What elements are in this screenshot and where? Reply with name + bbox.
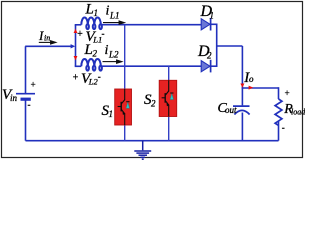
svg-text:-: - [28, 100, 31, 110]
svg-text:2: 2 [207, 51, 212, 61]
svg-text:out: out [225, 105, 237, 115]
svg-text:+: + [30, 80, 36, 90]
svg-text:-: - [98, 72, 101, 82]
svg-text:1: 1 [94, 8, 99, 18]
svg-text:in: in [44, 34, 50, 43]
svg-text:load: load [291, 107, 305, 116]
svg-text:L2: L2 [108, 50, 119, 60]
svg-text:in: in [10, 93, 18, 103]
svg-text:L: L [85, 2, 94, 18]
svg-text:1: 1 [210, 11, 215, 21]
svg-text:2: 2 [93, 48, 98, 58]
svg-text:1: 1 [109, 109, 114, 119]
svg-text:i: i [105, 43, 109, 58]
svg-text:2: 2 [151, 98, 156, 108]
svg-text:+: + [284, 88, 290, 98]
svg-text:+: + [72, 73, 79, 84]
svg-text:-: - [282, 123, 285, 133]
svg-text:i: i [106, 3, 110, 18]
svg-text:o: o [249, 74, 254, 84]
svg-text:+: + [77, 29, 84, 40]
svg-text:L1: L1 [109, 10, 120, 20]
svg-text:-: - [102, 29, 105, 39]
